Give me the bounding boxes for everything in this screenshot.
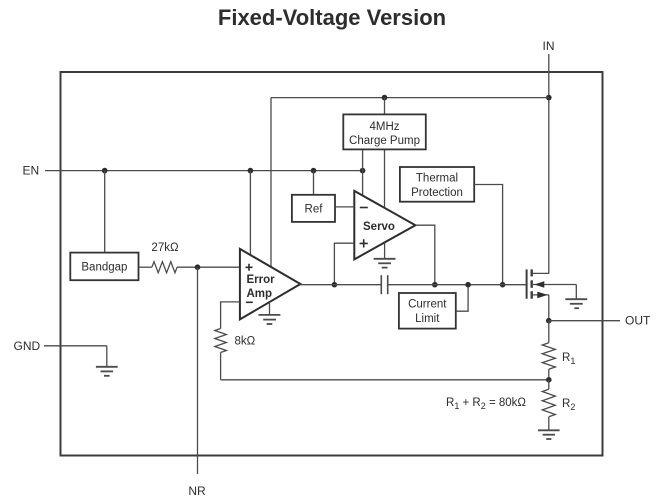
node EN-charge-pump junction xyxy=(360,168,366,174)
svg-text:Limit: Limit xyxy=(415,313,440,325)
wire NR xyxy=(197,267,199,474)
wire error-amp supply drop xyxy=(270,98,272,267)
node EN-bandgap junction xyxy=(102,168,108,174)
svg-text:R1: R1 xyxy=(562,352,575,366)
IC outline xyxy=(61,72,603,456)
svg-text:GND: GND xyxy=(14,339,41,353)
op-amp Servo xyxy=(354,191,415,260)
wire thermal-protection output xyxy=(474,185,502,285)
wire servo noninverting tap xyxy=(334,243,354,285)
svg-text:Error: Error xyxy=(247,274,276,286)
wire EN xyxy=(45,170,363,172)
ground FET body xyxy=(565,285,587,309)
svg-text:R2: R2 xyxy=(562,398,575,412)
node charge-pump supply tap xyxy=(382,95,388,101)
resistor 27kΩ xyxy=(139,262,240,273)
node IN supply-rail junction xyxy=(546,95,552,101)
svg-text:Ref: Ref xyxy=(305,203,324,215)
wire gate drive xyxy=(388,284,527,286)
op-amp Error Amp xyxy=(240,249,301,320)
svg-text:OUT: OUT xyxy=(625,314,651,328)
block Thermal Protection xyxy=(400,167,474,202)
resistor 8kΩ xyxy=(215,329,227,380)
svg-text:4MHz: 4MHz xyxy=(369,121,399,133)
svg-text:Fixed-Voltage Version: Fixed-Voltage Version xyxy=(218,5,446,30)
node thermal-gate junction xyxy=(500,282,506,288)
svg-text:Charge Pump: Charge Pump xyxy=(349,135,420,147)
wire ref drop xyxy=(313,171,315,195)
wire feedback xyxy=(221,379,549,381)
wire charge-pump top stub xyxy=(384,98,386,115)
ground R2 xyxy=(538,430,560,439)
wire OUT xyxy=(549,320,620,322)
svg-text:8kΩ: 8kΩ xyxy=(235,336,256,348)
resistor R1 xyxy=(542,321,555,380)
svg-text:R1 + R2 = 80kΩ: R1 + R2 = 80kΩ xyxy=(446,397,526,411)
svg-text:Protection: Protection xyxy=(411,187,463,199)
svg-text:IN: IN xyxy=(543,39,555,53)
svg-text:27kΩ: 27kΩ xyxy=(151,242,179,254)
ground error amp xyxy=(259,302,281,324)
svg-text:Current: Current xyxy=(408,299,447,311)
wire servo output xyxy=(415,225,434,285)
wire charge-pump right output xyxy=(384,149,386,208)
node servo-plus junction xyxy=(332,282,338,288)
transistor pass FET xyxy=(527,269,577,298)
node OUT xyxy=(546,318,552,324)
node NR junction xyxy=(195,264,201,270)
block Bandgap xyxy=(70,253,138,281)
block 4MHz Charge Pump xyxy=(343,114,426,149)
svg-text:NR: NR xyxy=(188,484,206,498)
svg-text:Thermal: Thermal xyxy=(416,173,458,185)
wire source to OUT xyxy=(548,295,550,321)
wire error-amp output xyxy=(300,284,381,286)
wire IN vertical xyxy=(548,54,550,274)
resistor R2 xyxy=(542,380,555,431)
node feedback junction xyxy=(546,377,552,383)
node EN-ref junction xyxy=(311,168,317,174)
svg-text:Amp: Amp xyxy=(247,288,273,300)
wire error-amp inverting input xyxy=(221,302,240,329)
wire current-limit tap xyxy=(456,285,468,312)
svg-text:Bandgap: Bandgap xyxy=(81,262,127,274)
wire error-amp enable drop xyxy=(249,171,251,256)
block Current Limit xyxy=(399,293,456,329)
svg-text:EN: EN xyxy=(23,164,40,178)
wire top supply rail xyxy=(271,97,549,99)
ground GND pin xyxy=(96,346,118,376)
node EN-error-amp junction xyxy=(248,168,254,174)
wire charge-pump left output xyxy=(362,149,364,196)
svg-text:Servo: Servo xyxy=(363,221,395,233)
node servo-output junction xyxy=(432,282,438,288)
block Ref xyxy=(292,195,335,222)
ground servo xyxy=(374,242,396,267)
wire GND xyxy=(44,345,107,347)
wire bandgap drop xyxy=(104,171,106,253)
node current-limit junction xyxy=(465,282,471,288)
capacitor C1 xyxy=(381,275,387,294)
wire ref to servo xyxy=(335,206,354,208)
